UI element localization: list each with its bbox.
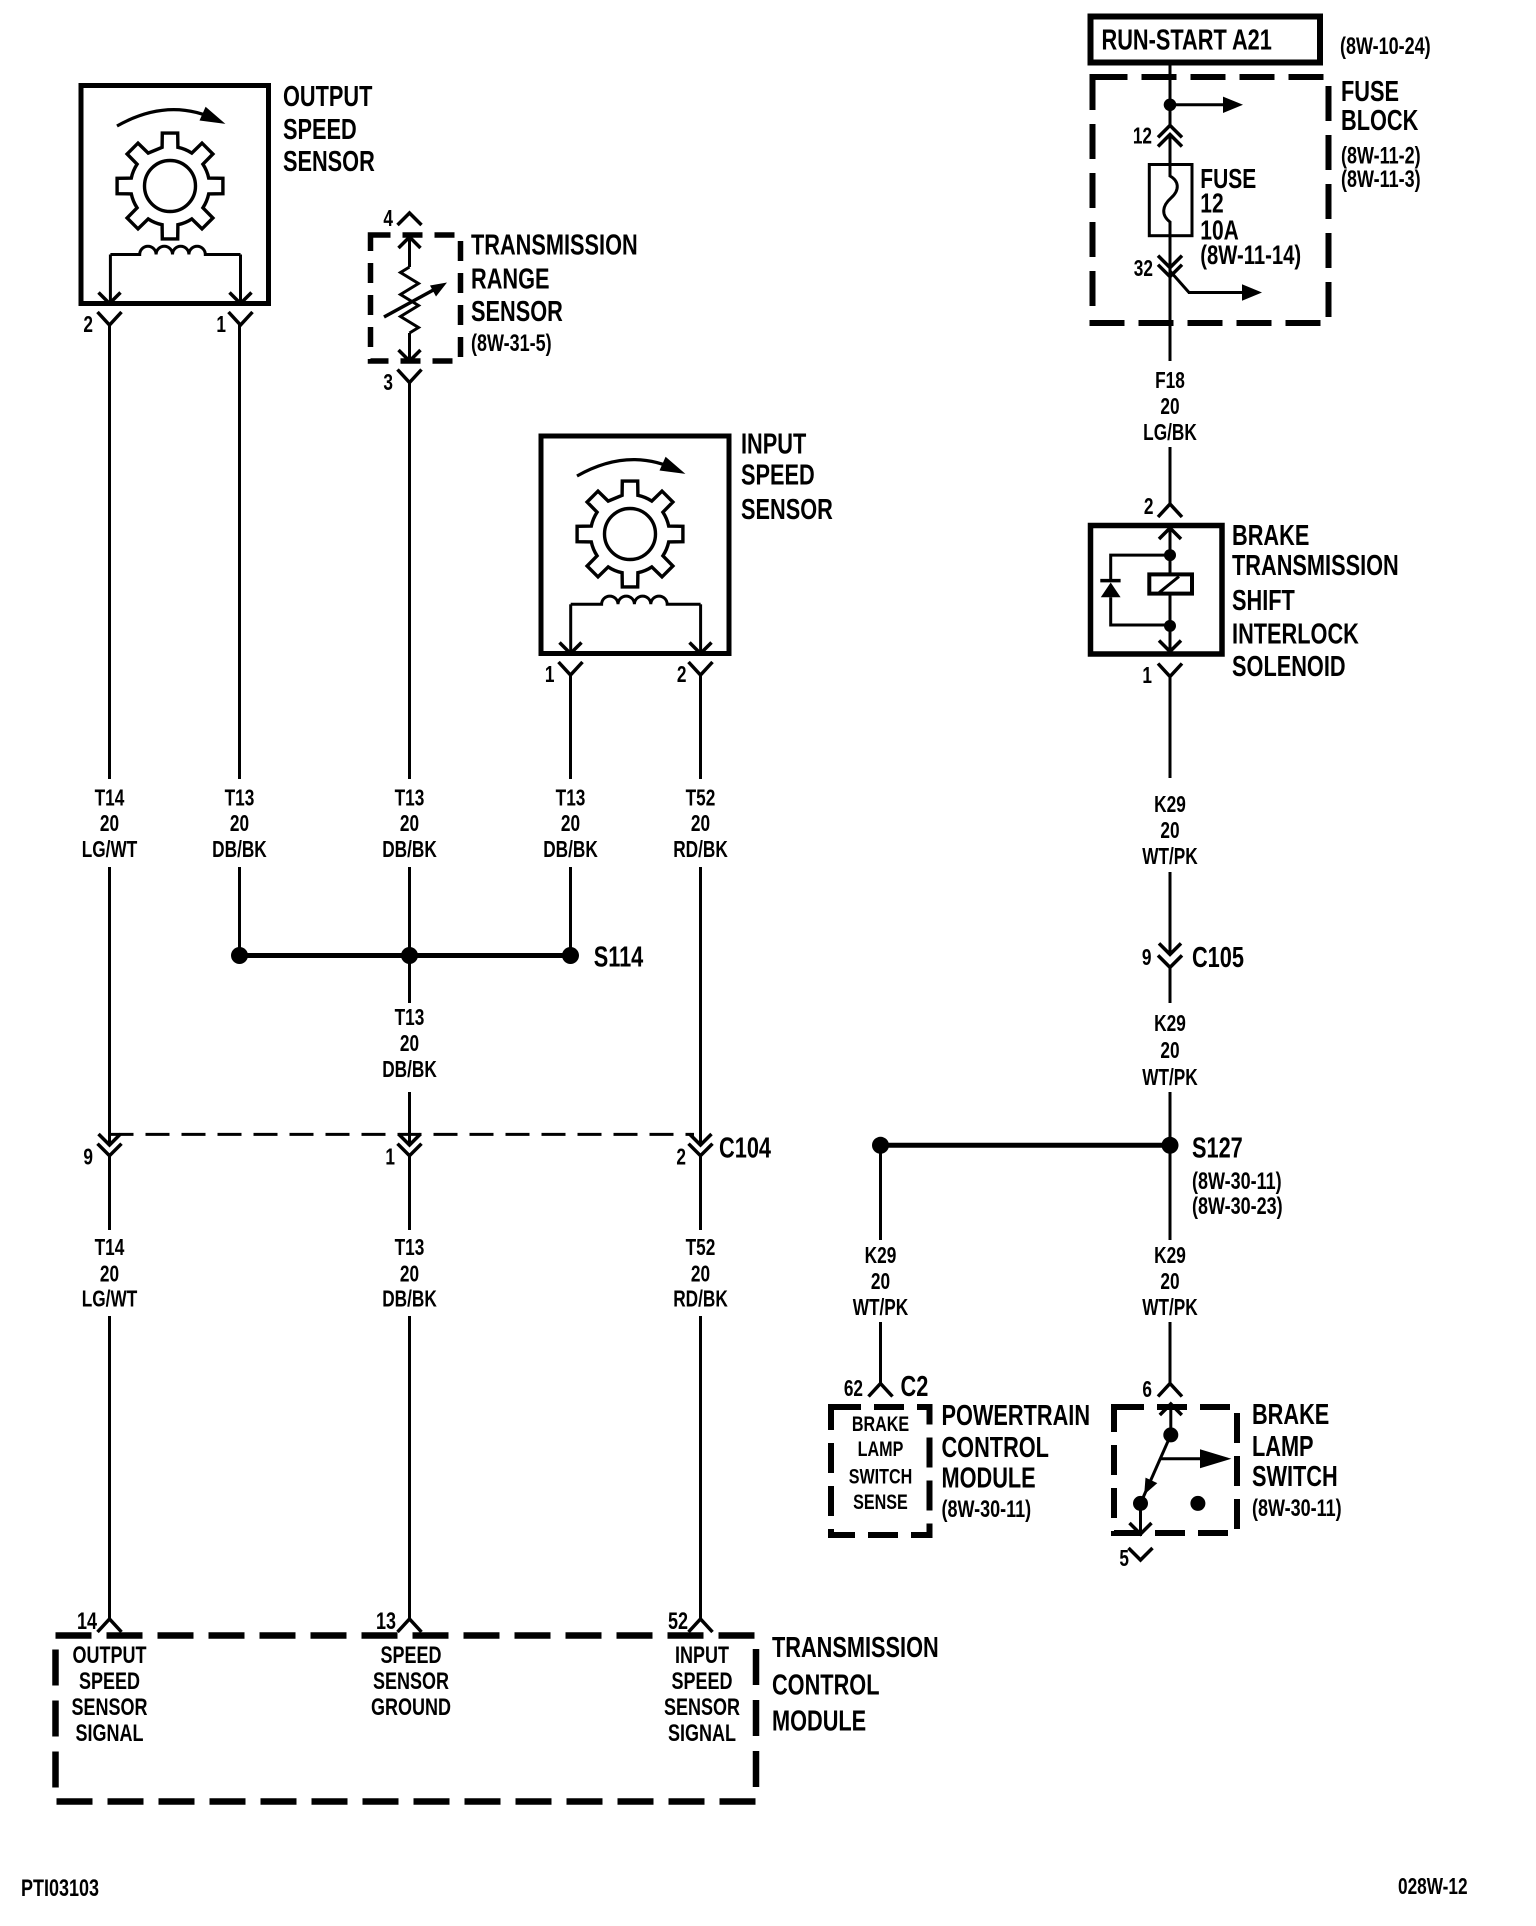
switch throw arrow — [1170, 271, 1189, 293]
svg-text:T14: T14 — [95, 786, 125, 811]
svg-text:S114: S114 — [594, 942, 644, 974]
svg-text:1: 1 — [545, 663, 555, 688]
wire coil left lead — [569, 604, 572, 652]
transmission range sensor label — [471, 230, 638, 357]
TCM pin 52 connector — [689, 1619, 713, 1632]
wire label K29 20 WT/PK — [1142, 793, 1198, 870]
svg-text:BLOCK: BLOCK — [1341, 105, 1419, 137]
svg-text:INTERLOCK: INTERLOCK — [1232, 619, 1359, 651]
wire below C105 — [1169, 967, 1172, 1003]
wire col1 to TCM — [108, 1316, 111, 1619]
svg-text:62: 62 — [844, 1377, 863, 1402]
wire col1 to C104 — [108, 867, 111, 1145]
wire col2 to splice S114 — [238, 867, 241, 956]
wire col3 to TCM — [408, 1316, 411, 1619]
svg-text:K29: K29 — [1154, 793, 1186, 818]
output speed sensor rotation arrow — [117, 110, 219, 126]
svg-text:OUTPUT: OUTPUT — [283, 81, 373, 113]
switch pin 5 arrow — [1130, 1523, 1152, 1534]
svg-text:DB/BK: DB/BK — [382, 1058, 437, 1083]
svg-text:BRAKE: BRAKE — [1232, 520, 1309, 552]
svg-text:T13: T13 — [395, 1006, 425, 1031]
trs resistor lead bottom — [408, 333, 411, 361]
wire coil left lead — [109, 255, 112, 303]
C104 pin 2 connector — [690, 1134, 712, 1145]
wire label T14 20 LG/WT — [82, 786, 138, 862]
output speed sensor coil — [110, 246, 240, 254]
wire S127 to PCM — [879, 1145, 882, 1240]
svg-text:DB/BK: DB/BK — [382, 1287, 437, 1312]
wire label T52 20 RD/BK — [673, 786, 728, 862]
svg-text:BRAKE: BRAKE — [852, 1413, 909, 1437]
svg-text:SENSOR: SENSOR — [283, 146, 375, 178]
splice S114 bus — [240, 953, 571, 958]
svg-text:K29: K29 — [865, 1244, 897, 1269]
svg-text:MODULE: MODULE — [772, 1706, 866, 1738]
output speed sensor box — [81, 86, 269, 304]
wire to splice S127 — [1169, 1092, 1172, 1145]
transmission range sensor box — [371, 235, 461, 361]
wire inside solenoid top — [1169, 528, 1172, 574]
powertrain control module label — [941, 1400, 1090, 1523]
wire from run-start into fuse block — [1169, 63, 1172, 125]
svg-text:20: 20 — [400, 1262, 419, 1287]
switch contact dot — [1133, 1496, 1148, 1511]
transmission control module box — [56, 1636, 757, 1802]
svg-text:2: 2 — [1144, 495, 1154, 520]
solenoid coil — [1149, 574, 1192, 593]
solenoid pin 1 connector — [1158, 664, 1182, 677]
svg-text:F18: F18 — [1155, 369, 1185, 394]
wire col5 lower — [699, 1156, 702, 1230]
wire S127 to brake lamp switch — [1169, 1145, 1172, 1240]
svg-text:INPUT: INPUT — [741, 429, 807, 461]
svg-text:SENSOR: SENSOR — [373, 1669, 449, 1695]
svg-text:DB/BK: DB/BK — [382, 838, 437, 863]
wire col5 upper — [699, 675, 702, 779]
pin 3 connector — [398, 370, 422, 383]
svg-text:WT/PK: WT/PK — [853, 1296, 909, 1321]
wire col1 upper — [108, 325, 111, 779]
svg-text:9: 9 — [1142, 946, 1152, 971]
wire to pin 5 — [1139, 1503, 1142, 1534]
TCM pin 13 connector — [398, 1619, 422, 1632]
wire label K29 20 WT/PK — [1142, 1012, 1198, 1091]
svg-text:PTI03103: PTI03103 — [21, 1876, 99, 1902]
fuse block box — [1093, 77, 1329, 323]
output speed sensor label — [283, 81, 375, 178]
brake lamp switch pin 6 connector — [1158, 1384, 1182, 1397]
junction dot — [1164, 99, 1177, 112]
wire below solenoid — [1169, 677, 1172, 779]
svg-text:1: 1 — [216, 313, 226, 338]
svg-text:14: 14 — [77, 1609, 97, 1635]
solenoid pin 2 arrow — [1159, 528, 1181, 539]
solenoid pin 1 arrow — [1159, 641, 1181, 652]
wire label K29 20 WT/PK — [853, 1244, 909, 1321]
wire inside solenoid bottom — [1169, 594, 1172, 652]
diode — [1100, 579, 1120, 583]
diode branch wire — [1111, 555, 1170, 625]
svg-text:CONTROL: CONTROL — [772, 1670, 879, 1702]
svg-text:T52: T52 — [686, 786, 716, 811]
pin 2 arrow — [99, 293, 121, 304]
svg-text:SENSOR: SENSOR — [741, 494, 833, 526]
input speed sensor box — [541, 436, 729, 654]
svg-text:(8W-11-2): (8W-11-2) — [1341, 143, 1421, 169]
svg-text:20: 20 — [691, 812, 710, 837]
svg-text:SPEED: SPEED — [79, 1669, 140, 1695]
connector C104 label — [719, 1133, 772, 1165]
svg-text:SHIFT: SHIFT — [1232, 585, 1295, 617]
svg-text:(8W-11-14): (8W-11-14) — [1200, 240, 1301, 271]
svg-text:T52: T52 — [686, 1236, 716, 1261]
svg-text:OUTPUT: OUTPUT — [73, 1643, 147, 1669]
svg-text:SOLENOID: SOLENOID — [1232, 651, 1346, 683]
svg-text:LG/WT: LG/WT — [82, 838, 138, 863]
svg-text:T13: T13 — [556, 786, 586, 811]
svg-text:SENSE: SENSE — [853, 1491, 908, 1515]
TCM pin 14 connector — [98, 1619, 122, 1632]
wire label T13 20 DB/BK — [382, 1236, 437, 1312]
svg-text:POWERTRAIN: POWERTRAIN — [941, 1400, 1090, 1432]
trs pin 4 arrow — [399, 237, 421, 248]
svg-text:20: 20 — [400, 1032, 419, 1057]
svg-text:T13: T13 — [225, 786, 255, 811]
wire col3 to C104 — [408, 1092, 411, 1145]
fuse 12 — [1149, 165, 1192, 236]
svg-text:LG/BK: LG/BK — [1143, 421, 1197, 446]
svg-text:(8W-11-3): (8W-11-3) — [1341, 167, 1421, 193]
svg-text:20: 20 — [871, 1270, 890, 1295]
svg-text:C2: C2 — [901, 1371, 929, 1403]
junction dot — [562, 947, 579, 964]
TCM pin 52 function label — [664, 1643, 740, 1747]
junction dot — [872, 1137, 889, 1154]
svg-text:(8W-10-24): (8W-10-24) — [1340, 34, 1431, 60]
svg-text:RD/BK: RD/BK — [673, 838, 728, 863]
svg-text:9: 9 — [83, 1145, 93, 1170]
svg-text:1: 1 — [385, 1145, 395, 1170]
powertrain control module box — [831, 1407, 930, 1535]
svg-text:(8W-30-11): (8W-30-11) — [941, 1497, 1031, 1523]
svg-text:(8W-31-5): (8W-31-5) — [471, 331, 552, 357]
svg-text:SPEED: SPEED — [741, 460, 815, 492]
wire label T13 20 DB/BK — [543, 786, 598, 862]
junction dot — [1164, 620, 1176, 632]
switch throw arrow — [1160, 1457, 1200, 1460]
svg-text:2: 2 — [676, 1145, 686, 1170]
pin 1 arrow — [230, 293, 252, 304]
svg-text:K29: K29 — [1154, 1012, 1186, 1037]
wire label T13 20 DB/BK — [382, 786, 437, 862]
wire coil right lead — [699, 604, 702, 652]
svg-text:2: 2 — [677, 663, 687, 688]
junction dot — [1164, 549, 1176, 561]
pin 1 arrow — [560, 643, 582, 654]
junction dot — [1162, 1137, 1179, 1154]
svg-text:LG/WT: LG/WT — [82, 1287, 138, 1312]
svg-text:RD/BK: RD/BK — [673, 1287, 728, 1312]
svg-text:20: 20 — [561, 812, 580, 837]
fuse block pin 32 connector — [1158, 256, 1182, 268]
wire label F18 20 LG/BK — [1143, 369, 1197, 446]
svg-text:20: 20 — [1160, 1270, 1179, 1295]
svg-text:20: 20 — [230, 812, 249, 837]
splice S114 label — [594, 942, 644, 974]
connector C105 — [1159, 943, 1181, 954]
svg-text:SPEED: SPEED — [283, 114, 357, 146]
pin 2 connector — [689, 662, 713, 675]
svg-text:SPEED: SPEED — [671, 1669, 732, 1695]
switch alternate contact dot — [1190, 1496, 1205, 1511]
svg-text:INPUT: INPUT — [675, 1643, 729, 1669]
wire label T13 20 DB/BK — [212, 786, 267, 862]
output speed sensor gear — [117, 133, 223, 239]
svg-text:DB/BK: DB/BK — [543, 838, 598, 863]
wire col4 upper — [569, 675, 572, 779]
wire coil right lead — [239, 255, 242, 303]
svg-text:LAMP: LAMP — [858, 1438, 904, 1462]
svg-text:TRANSMISSION: TRANSMISSION — [1232, 550, 1399, 582]
pin 2 arrow — [690, 643, 712, 654]
trs adjust arrow — [384, 288, 437, 317]
svg-text:DB/BK: DB/BK — [212, 838, 267, 863]
svg-text:S127: S127 — [1192, 1133, 1243, 1165]
svg-text:4: 4 — [383, 207, 393, 232]
pin 1 connector — [559, 662, 583, 675]
junction dot — [401, 947, 418, 964]
svg-text:T13: T13 — [395, 1236, 425, 1261]
sheet number 028W-12 — [1398, 1875, 1468, 1900]
svg-text:FUSE: FUSE — [1341, 76, 1399, 108]
svg-text:SPEED: SPEED — [380, 1643, 441, 1669]
PCM pin 62 connector C2 — [869, 1384, 893, 1397]
trs variable resistor — [401, 267, 419, 333]
svg-text:MODULE: MODULE — [941, 1463, 1035, 1495]
svg-text:SIGNAL: SIGNAL — [76, 1721, 144, 1747]
brake lamp switch box — [1114, 1407, 1237, 1533]
svg-text:GROUND: GROUND — [371, 1695, 451, 1721]
svg-text:1: 1 — [1142, 664, 1152, 689]
solenoid label — [1232, 520, 1399, 683]
svg-text:2: 2 — [83, 313, 93, 338]
svg-text:T13: T13 — [395, 786, 425, 811]
wire col3 lower — [408, 1156, 411, 1230]
pin 2 connector — [98, 312, 122, 325]
svg-text:SENSOR: SENSOR — [72, 1695, 148, 1721]
wire col5 to C104 — [699, 867, 702, 1145]
svg-text:TRANSMISSION: TRANSMISSION — [471, 230, 638, 262]
svg-text:SENSOR: SENSOR — [664, 1695, 740, 1721]
svg-text:TRANSMISSION: TRANSMISSION — [772, 1632, 939, 1664]
connector C104 dashed line — [110, 1133, 695, 1136]
brake transmission shift interlock solenoid box — [1091, 526, 1223, 655]
wire col3 through splice — [408, 867, 411, 1003]
wire col3 upper — [408, 383, 411, 780]
svg-text:T14: T14 — [95, 1236, 125, 1261]
input speed sensor rotation arrow — [577, 460, 679, 476]
switch blade — [1141, 1435, 1171, 1504]
C104 pin 1 connector — [399, 1134, 421, 1145]
wire col2 upper — [238, 325, 241, 779]
svg-text:12: 12 — [1133, 124, 1152, 149]
input speed sensor coil — [571, 596, 701, 604]
trs resistor lead top — [408, 237, 411, 267]
junction dot — [231, 947, 248, 964]
svg-text:RUN-START A21: RUN-START A21 — [1102, 25, 1272, 57]
svg-text:SWITCH: SWITCH — [849, 1465, 913, 1489]
transmission range sensor pin 4 chevron — [398, 213, 422, 225]
switch pin 6 arrow — [1160, 1404, 1182, 1415]
splice S127 label — [1192, 1133, 1283, 1220]
feed arrow right — [1170, 103, 1223, 106]
fuse block pin 12 connector — [1158, 125, 1182, 137]
wire col1 lower — [108, 1156, 111, 1230]
fuse label — [1200, 164, 1301, 271]
pin 1 connector — [229, 312, 253, 325]
svg-text:WT/PK: WT/PK — [1142, 845, 1198, 870]
transmission control module label — [772, 1632, 939, 1737]
svg-text:5: 5 — [1119, 1547, 1129, 1572]
svg-text:20: 20 — [100, 812, 119, 837]
svg-text:(8W-30-11): (8W-30-11) — [1192, 1169, 1282, 1195]
PCM pin function label — [849, 1413, 913, 1515]
svg-text:LAMP: LAMP — [1252, 1431, 1314, 1463]
svg-text:20: 20 — [1160, 1039, 1179, 1064]
svg-text:52: 52 — [668, 1609, 688, 1635]
svg-text:20: 20 — [1160, 395, 1179, 420]
wire col5 to TCM — [699, 1316, 702, 1619]
svg-text:20: 20 — [100, 1262, 119, 1287]
wire to solenoid — [1169, 330, 1172, 361]
svg-text:12: 12 — [1200, 189, 1223, 220]
input speed sensor label — [741, 429, 833, 526]
wire label T13 20 DB/BK below splice — [382, 1006, 437, 1083]
svg-text:13: 13 — [376, 1609, 396, 1635]
wire below fuse — [1169, 236, 1172, 330]
TCM pin 14 function label — [72, 1643, 148, 1747]
wire label K29 20 WT/PK — [1142, 1244, 1198, 1321]
svg-text:20: 20 — [400, 812, 419, 837]
fuse block label — [1341, 76, 1421, 193]
svg-text:WT/PK: WT/PK — [1142, 1296, 1198, 1321]
svg-text:C104: C104 — [719, 1133, 772, 1165]
C104 pin 9 connector — [99, 1134, 121, 1145]
wire label T14 20 LG/WT — [82, 1236, 138, 1312]
svg-text:3: 3 — [383, 371, 393, 396]
TCM pin 13 function label — [371, 1643, 451, 1721]
junction dot — [1163, 1427, 1178, 1442]
svg-text:C105: C105 — [1192, 942, 1244, 974]
svg-text:SENSOR: SENSOR — [471, 296, 563, 328]
svg-text:SIGNAL: SIGNAL — [668, 1721, 736, 1747]
wire to C105 — [1169, 872, 1172, 954]
input speed sensor gear — [577, 481, 683, 587]
svg-text:028W-12: 028W-12 — [1398, 1875, 1468, 1900]
svg-text:20: 20 — [1160, 819, 1179, 844]
wire to switch common — [1169, 1404, 1172, 1435]
svg-text:(8W-30-11): (8W-30-11) — [1252, 1496, 1342, 1522]
wire to fuse — [1169, 137, 1172, 176]
solenoid pin 2 connector — [1158, 504, 1182, 517]
svg-text:BRAKE: BRAKE — [1252, 1399, 1329, 1431]
svg-text:SWITCH: SWITCH — [1252, 1461, 1338, 1493]
svg-text:20: 20 — [691, 1262, 710, 1287]
svg-text:WT/PK: WT/PK — [1142, 1066, 1198, 1091]
pin 5 connector — [1129, 1548, 1153, 1560]
svg-text:32: 32 — [1134, 257, 1153, 282]
svg-text:RANGE: RANGE — [471, 264, 550, 296]
svg-text:CONTROL: CONTROL — [941, 1432, 1048, 1464]
drawing number PTI03103 — [21, 1876, 99, 1902]
svg-text:(8W-30-23): (8W-30-23) — [1192, 1194, 1283, 1220]
wire col4 to splice S114 — [569, 867, 572, 956]
svg-text:K29: K29 — [1154, 1244, 1186, 1269]
splice S127 bus — [881, 1143, 1171, 1148]
brake lamp switch label — [1252, 1399, 1342, 1522]
trs pin 3 arrow — [399, 350, 421, 361]
svg-text:6: 6 — [1142, 1378, 1152, 1403]
node RUN-START A21 — [1091, 17, 1321, 63]
wire label T52 20 RD/BK — [673, 1236, 728, 1312]
